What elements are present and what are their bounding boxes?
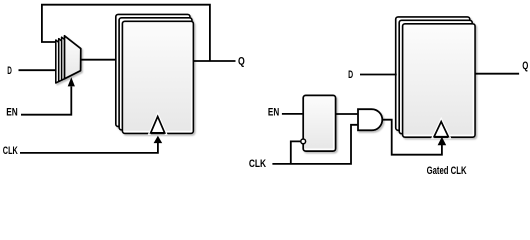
wire: mux output to flip-flop D input (left) xyxy=(81,59,117,61)
svg-text:CLK: CLK xyxy=(3,145,18,157)
wire: D input to right flip-flop xyxy=(360,74,397,76)
svg-text:EN: EN xyxy=(268,106,279,118)
AND gate U4 (right) xyxy=(358,109,382,130)
wire: Q output (left) xyxy=(193,60,235,62)
wire: EN input with arrow into mux select pin (left) xyxy=(21,77,75,114)
svg-text:D: D xyxy=(348,69,353,81)
svg-text:D: D xyxy=(7,65,12,77)
inversion bubble on latch gate input xyxy=(301,139,306,144)
wire: Q output (right) xyxy=(475,73,519,75)
flip-flop U5: stacked D flip-flop (right) xyxy=(396,17,475,137)
wire: gated clock from AND output with arrow into right flip-flop clock pin xyxy=(382,120,446,155)
svg-text:CLK: CLK xyxy=(249,158,266,170)
clock triangle pin of right flip-flop xyxy=(434,122,448,138)
svg-text:Gated CLK: Gated CLK xyxy=(427,165,467,177)
svg-text:EN: EN xyxy=(6,107,18,119)
latch U3: enable latch (right) xyxy=(303,95,335,151)
wire: feedback loop from Q line up and over to mux input (left circuit) xyxy=(42,5,210,61)
wire: CLK with arrow into left flip-flop clock pin xyxy=(20,136,162,153)
wire: CLK to AND gate input and latch gate input (right) xyxy=(272,125,358,164)
flip-flop U2: stacked D flip-flop (left) xyxy=(116,14,194,133)
svg-text:Q: Q xyxy=(522,60,528,72)
wire: D input to mux (left) xyxy=(19,69,64,71)
mux U1: 2:1 multiplexer drawn as stacked layers (left) xyxy=(56,36,81,83)
clock triangle pin of left flip-flop xyxy=(151,117,165,134)
svg-text:Q: Q xyxy=(238,55,245,67)
wire: EN input to latch (right circuit) xyxy=(282,113,303,115)
wire: latch output to AND gate input (right) xyxy=(336,113,358,115)
